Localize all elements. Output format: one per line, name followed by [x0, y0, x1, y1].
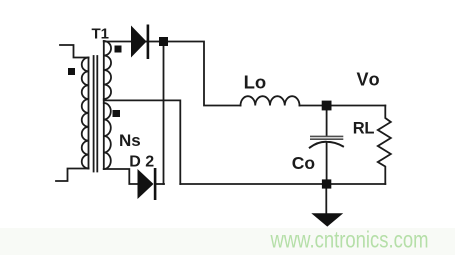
capacitor Co plate 2	[311, 138, 343, 140]
capacitor Co curved plate	[310, 142, 343, 148]
wire secondary bottom to D2	[104, 169, 138, 184]
svg-text:www.cntronics.com: www.cntronics.com	[270, 226, 429, 252]
svg-text:Vo: Vo	[357, 69, 382, 89]
wire primary top lead	[60, 45, 89, 58]
capacitor Co branch bottom	[326, 143, 328, 184]
ground symbol	[311, 213, 343, 226]
wire D1 cathode to node X	[147, 41, 161, 43]
inductor Lo	[241, 96, 300, 105]
svg-text:Lo: Lo	[244, 71, 267, 92]
wire Lo to Vo rail	[300, 105, 386, 107]
wire D2 cathode to node X drop	[155, 183, 164, 185]
diode D2	[138, 169, 154, 199]
svg-text:Ns: Ns	[119, 131, 141, 150]
polarity dot primary	[68, 68, 75, 75]
capacitor Co plate 1	[311, 135, 343, 137]
resistor RL	[378, 106, 391, 185]
node ground junction	[322, 179, 331, 188]
transformer secondary winding Ns	[103, 41, 105, 169]
transformer T1 primary winding	[88, 58, 90, 169]
polarity dot secondary mid	[113, 110, 121, 117]
svg-text:RL: RL	[353, 119, 375, 137]
wire node X to corner and down to Lo feed	[168, 42, 241, 106]
wire node X drop to D2 cathode rail	[163, 46, 165, 185]
svg-text:Co: Co	[292, 153, 315, 173]
wire primary bottom lead	[56, 169, 89, 182]
polarity dot secondary top	[115, 46, 122, 53]
capacitor Co branch top	[326, 110, 328, 136]
wire ground stem	[325, 188, 327, 214]
wire secondary tap	[104, 100, 181, 184]
wire bottom rail	[180, 183, 385, 185]
svg-text:D 2: D 2	[129, 154, 154, 171]
node X junction	[159, 37, 168, 46]
wire secondary top to D1	[104, 41, 131, 43]
diode D1	[131, 26, 147, 58]
transformer core	[93, 56, 95, 172]
node Vo junction	[322, 101, 332, 111]
svg-text:T1: T1	[92, 25, 110, 42]
